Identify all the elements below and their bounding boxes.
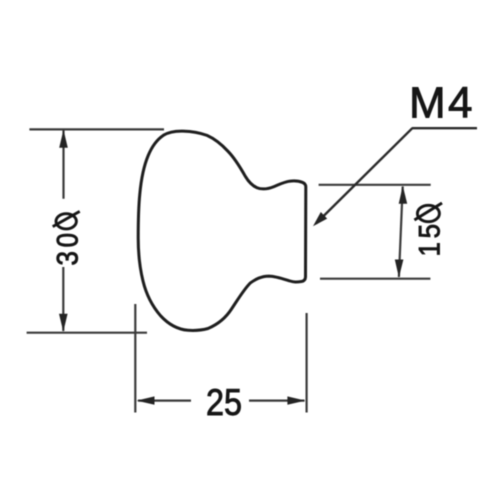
25 dimension line left segment	[138, 400, 191, 402]
30phi dimension line lower segment	[62, 267, 64, 331]
25 right arrow	[287, 396, 305, 404]
15phi phi symbol slash	[414, 203, 442, 220]
25 left arrow	[137, 396, 155, 404]
svg-text:M4: M4	[409, 79, 475, 128]
15phi dimension line (slightly tilted)	[399, 187, 403, 278]
15phi phi symbol ellipse	[417, 205, 439, 221]
15phi up arrow	[399, 186, 408, 204]
25 dimension: left extension line	[134, 304, 136, 413]
svg-text:30: 30	[51, 229, 84, 265]
M4 leader shoulder	[412, 127, 477, 129]
30phi dimension line upper segment	[62, 130, 64, 198]
30phi dimension: bottom extension line	[27, 332, 147, 334]
15phi dimension: top extension line	[319, 184, 431, 186]
25 dimension: right extension line	[306, 313, 308, 413]
30phi down arrow	[59, 314, 68, 332]
knob outline	[138, 131, 306, 330]
svg-text:15: 15	[413, 220, 446, 256]
30phi up arrow	[59, 130, 68, 148]
30phi phi symbol ellipse	[56, 214, 76, 229]
30phi dimension: top extension line	[29, 128, 164, 130]
svg-text:25: 25	[206, 382, 242, 423]
M4 leader arrowhead	[313, 212, 327, 226]
25 dimension line right segment	[249, 400, 305, 402]
M4 leader diagonal	[316, 128, 412, 223]
30phi phi symbol slash	[53, 211, 80, 226]
15phi dimension: bottom extension line	[320, 278, 430, 280]
15phi down arrow	[395, 260, 404, 278]
